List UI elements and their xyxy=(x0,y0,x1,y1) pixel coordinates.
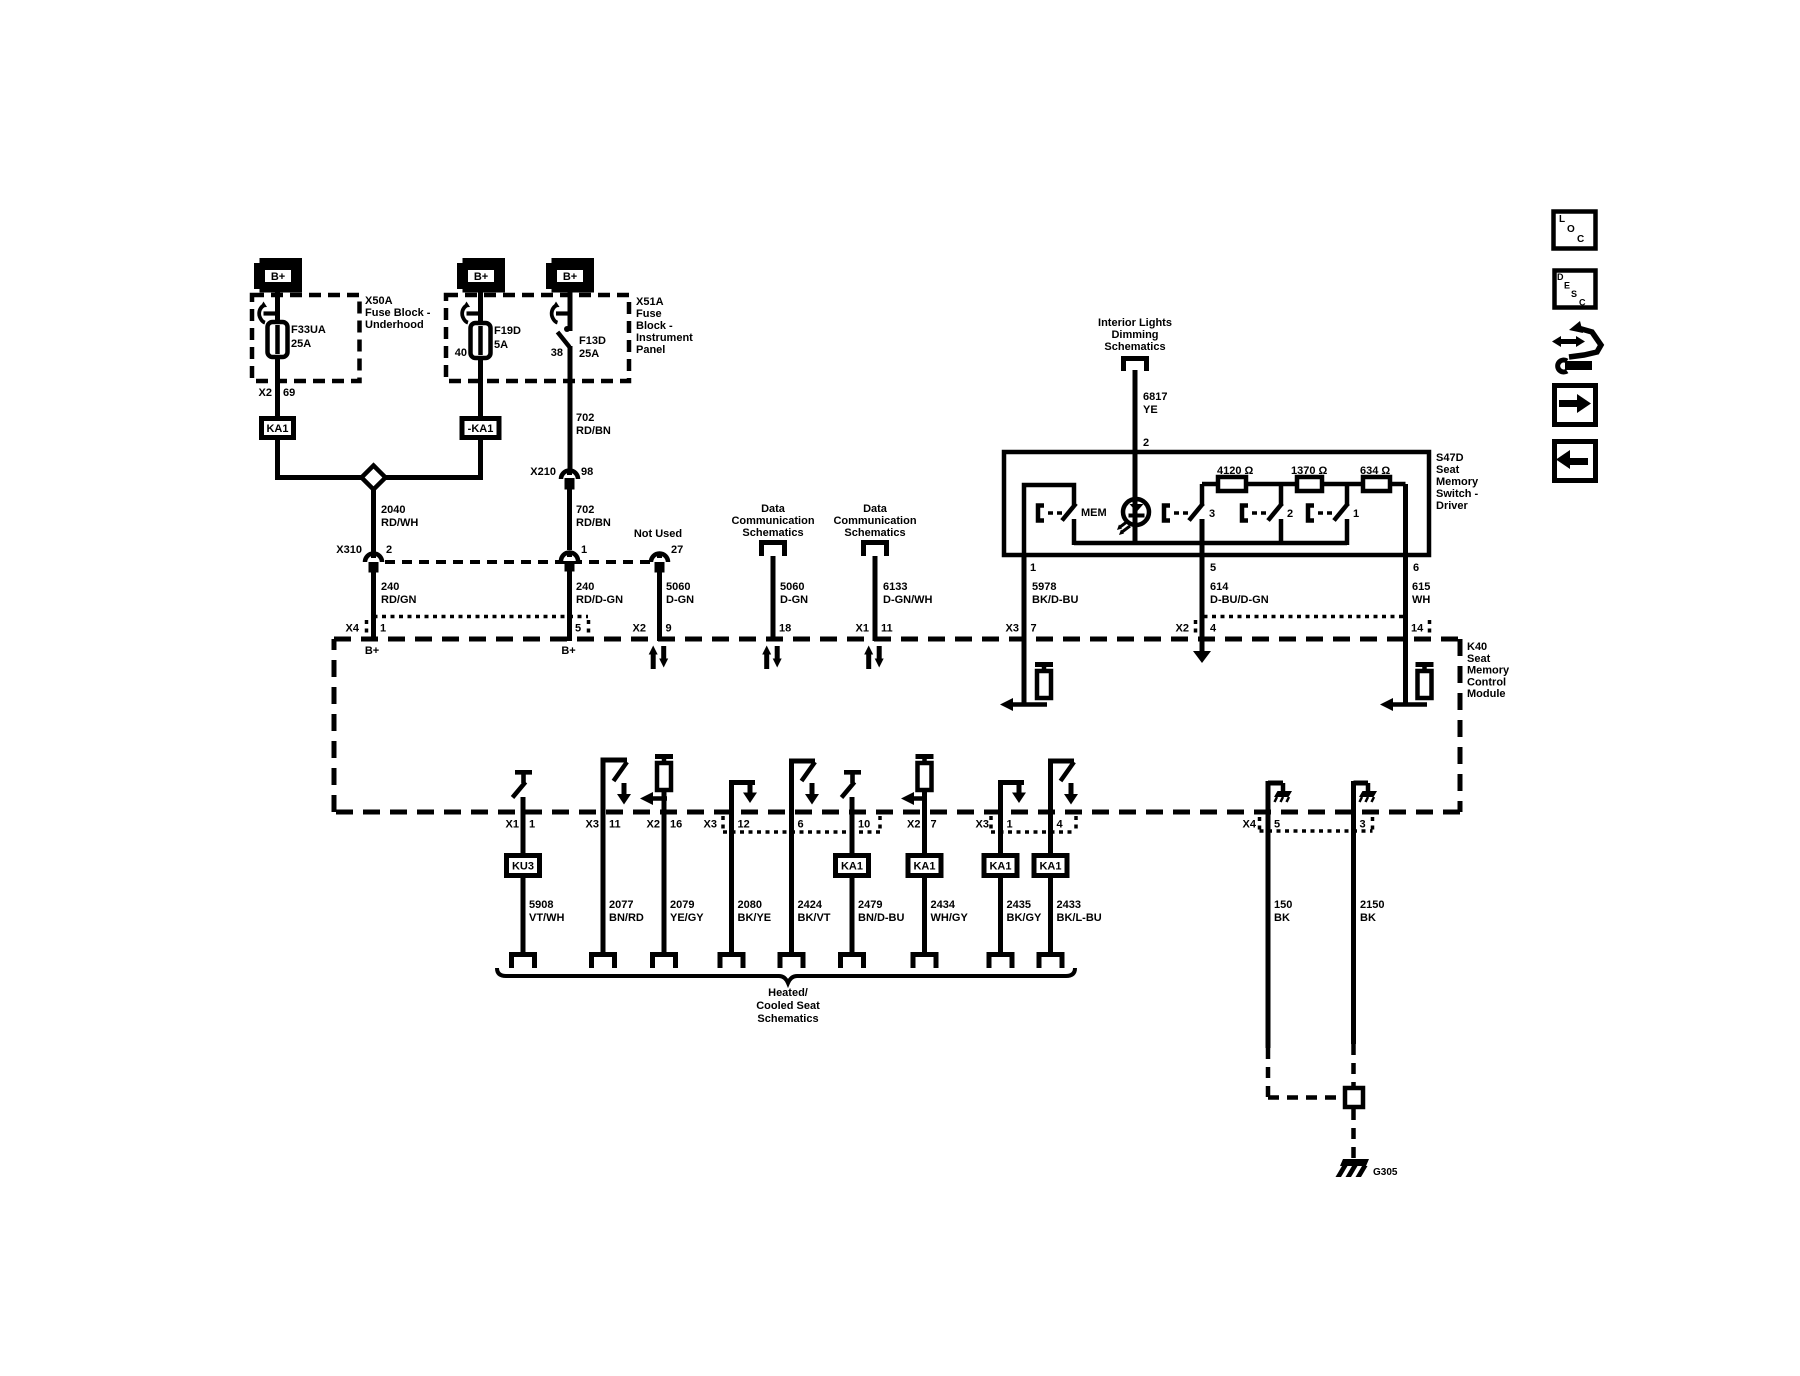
switch common bus xyxy=(1074,541,1347,546)
switch 1 lever xyxy=(1334,504,1348,521)
svg-text:B+: B+ xyxy=(474,271,488,283)
svg-text:X3: X3 xyxy=(704,819,717,831)
off-page connector 5908 xyxy=(509,952,537,957)
svg-text:Instrument: Instrument xyxy=(636,332,693,344)
switch MEM lever xyxy=(1062,504,1076,521)
wire 240 RD/GN xyxy=(371,570,376,641)
svg-text:X2: X2 xyxy=(907,819,920,831)
svg-text:2150: 2150 xyxy=(1360,899,1384,911)
svg-text:KA1: KA1 xyxy=(989,861,1011,873)
wire 2479 lower xyxy=(850,878,855,952)
wire 5060 D-GN (not used) xyxy=(657,571,662,641)
svg-text:40: 40 xyxy=(455,347,467,359)
svg-text:BK: BK xyxy=(1360,912,1376,924)
wire 5978 into module xyxy=(1022,641,1027,705)
svg-text:614: 614 xyxy=(1210,581,1229,593)
svg-text:RD/WH: RD/WH xyxy=(381,517,418,529)
connector X2 tick right xyxy=(1428,620,1432,634)
svg-text:12: 12 xyxy=(738,819,750,831)
svg-text:150: 150 xyxy=(1274,899,1292,911)
svg-text:Control: Control xyxy=(1467,676,1506,688)
solenoid symbol pin X2-7 xyxy=(916,754,934,759)
svg-text:L: L xyxy=(1559,214,1565,225)
off-page connector 2479 xyxy=(838,952,866,957)
off-page connector 2080 xyxy=(718,952,746,957)
wire B+ to F33UA xyxy=(275,291,280,323)
wire F33UA to KA1 xyxy=(275,357,280,417)
circuit breaker F13D 25A xyxy=(564,326,570,332)
wire 702 RD/BN upper xyxy=(568,346,573,469)
svg-text:Schematics: Schematics xyxy=(1104,341,1165,353)
switch 1 upper stub xyxy=(1345,484,1350,506)
svg-text:B+: B+ xyxy=(563,271,577,283)
svg-text:Interior Lights: Interior Lights xyxy=(1098,317,1172,329)
svg-text:10: 10 xyxy=(858,819,870,831)
svg-text:5060: 5060 xyxy=(780,581,804,593)
wire 2434 upper xyxy=(922,789,927,854)
svg-text:WH: WH xyxy=(1412,594,1430,606)
svg-text:11: 11 xyxy=(609,819,621,831)
svg-text:D-GN: D-GN xyxy=(780,594,808,606)
svg-text:16: 16 xyxy=(670,819,682,831)
wire 2080 BK/YE xyxy=(729,780,734,952)
wire 5908 VT/WH lower xyxy=(521,878,526,952)
module K40 dashed outline xyxy=(334,637,1460,642)
svg-text:RD/BN: RD/BN xyxy=(576,517,611,529)
off-page connector 2424 xyxy=(778,952,806,957)
svg-text:5978: 5978 xyxy=(1032,581,1056,593)
svg-text:1370 Ω: 1370 Ω xyxy=(1291,465,1328,477)
svg-text:RD/GN: RD/GN xyxy=(381,594,417,606)
off-page connector 2079 xyxy=(650,952,678,957)
resistor chain wire xyxy=(1202,482,1406,487)
svg-text:5908: 5908 xyxy=(529,899,553,911)
clip connector F19D cavity xyxy=(467,311,480,315)
svg-text:Memory: Memory xyxy=(1467,665,1510,677)
svg-text:6817: 6817 xyxy=(1143,391,1167,403)
svg-text:14: 14 xyxy=(1411,623,1424,635)
icon reroute arrows xyxy=(1569,321,1583,333)
wire 2150 BK dashed to splice xyxy=(1351,1044,1356,1086)
svg-text:3: 3 xyxy=(1360,819,1366,831)
svg-text:F13D: F13D xyxy=(579,335,606,347)
switch MEM bracket xyxy=(1038,506,1044,521)
off-page connector data comm 1 xyxy=(759,540,787,545)
icon LOC xyxy=(1554,212,1596,249)
svg-text:Seat: Seat xyxy=(1436,464,1460,476)
svg-text:KU3: KU3 xyxy=(512,861,534,873)
svg-text:Driver: Driver xyxy=(1436,500,1469,512)
svg-text:YE/GY: YE/GY xyxy=(670,912,704,924)
svg-text:2040: 2040 xyxy=(381,504,405,516)
battery terminal B+ (1) xyxy=(254,263,261,289)
svg-text:Cooled Seat: Cooled Seat xyxy=(756,1000,820,1012)
svg-text:BK/D-BU: BK/D-BU xyxy=(1032,594,1078,606)
switch 3 upper stub xyxy=(1200,484,1205,506)
resistor 1370 ohm xyxy=(1297,477,1322,491)
wire splice to ground xyxy=(1351,1109,1356,1160)
svg-text:X51A: X51A xyxy=(636,296,664,308)
ground G305 symbol xyxy=(1340,1159,1369,1166)
wire switch 2 pivot xyxy=(1279,519,1284,545)
svg-text:G305: G305 xyxy=(1373,1167,1398,1178)
svg-text:7: 7 xyxy=(1031,623,1037,635)
svg-text:11: 11 xyxy=(881,623,893,635)
wire 150 BK xyxy=(1266,815,1271,1048)
svg-text:BN/D-BU: BN/D-BU xyxy=(858,912,904,924)
svg-text:-KA1: -KA1 xyxy=(468,423,494,435)
svg-text:Memory: Memory xyxy=(1436,476,1479,488)
relay contact KA1 (2435) xyxy=(984,856,1017,876)
svg-text:25A: 25A xyxy=(579,348,599,360)
svg-text:F19D: F19D xyxy=(494,325,521,337)
wire S47D pin6 leg xyxy=(1403,484,1408,641)
connector X310 pin 2 xyxy=(365,554,382,563)
wire 614 D-BU/D-GN xyxy=(1200,519,1205,641)
svg-text:X2: X2 xyxy=(633,623,646,635)
wire 2434 lower xyxy=(922,878,927,952)
connector X2 dotted line xyxy=(1204,615,1405,619)
svg-text:B+: B+ xyxy=(365,645,379,657)
svg-text:2077: 2077 xyxy=(609,899,633,911)
svg-text:1: 1 xyxy=(1353,508,1359,520)
off-page connector 2434 xyxy=(911,952,939,957)
wire KA1 to bus xyxy=(275,440,280,480)
svg-text:27: 27 xyxy=(671,544,683,556)
svg-text:S47D: S47D xyxy=(1436,452,1464,464)
solenoid symbol 615 xyxy=(1416,662,1434,667)
wire through lamp xyxy=(1133,452,1138,545)
connector X210 pin 98 xyxy=(561,471,578,480)
svg-text:Module: Module xyxy=(1467,688,1506,700)
switch 2 lever xyxy=(1268,504,1282,521)
svg-text:WH/GY: WH/GY xyxy=(931,912,969,924)
svg-text:2080: 2080 xyxy=(738,899,762,911)
svg-text:4120 Ω: 4120 Ω xyxy=(1217,465,1254,477)
internal ground symbol pin 3 xyxy=(1351,781,1356,815)
wire 5060 D-GN (data) xyxy=(771,556,776,641)
svg-text:Panel: Panel xyxy=(636,344,665,356)
svg-text:4: 4 xyxy=(1210,623,1217,635)
svg-text:D-GN/WH: D-GN/WH xyxy=(883,594,933,606)
wire 2433 lower xyxy=(1048,878,1053,952)
wire 2077 BN/RD xyxy=(601,758,606,953)
svg-text:X3: X3 xyxy=(976,819,989,831)
wire 615 into module xyxy=(1403,641,1408,705)
wire 5908 VT/WH upper xyxy=(521,797,526,854)
wire 2435 upper xyxy=(998,780,1003,854)
svg-text:X310: X310 xyxy=(336,544,362,556)
svg-text:D: D xyxy=(1557,272,1564,282)
svg-text:7: 7 xyxy=(931,819,937,831)
output driver symbol pin X3-1 xyxy=(1001,780,1025,785)
svg-text:2433: 2433 xyxy=(1057,899,1081,911)
svg-text:702: 702 xyxy=(576,412,594,424)
clip connector F13D cavity xyxy=(556,311,569,315)
input arrow 2079 xyxy=(650,796,667,801)
connector KU3 xyxy=(507,856,540,876)
svg-text:5060: 5060 xyxy=(666,581,690,593)
svg-text:Schematics: Schematics xyxy=(844,527,905,539)
wire 6817 YE xyxy=(1133,370,1138,454)
fuse block X51A outline xyxy=(446,295,629,381)
svg-text:X4: X4 xyxy=(1243,819,1257,831)
svg-text:VT/WH: VT/WH xyxy=(529,912,564,924)
wire 702 RD/BN lower xyxy=(567,487,572,550)
connector X3 dotted group (1-4) xyxy=(989,816,993,832)
switch 3 bracket xyxy=(1164,506,1170,521)
svg-text:Schematics: Schematics xyxy=(742,527,803,539)
svg-text:C: C xyxy=(1579,298,1586,308)
icon back arrow xyxy=(1555,442,1596,481)
svg-text:YE: YE xyxy=(1143,404,1158,416)
output switch symbol pin X1-1 xyxy=(515,770,532,775)
svg-text:3: 3 xyxy=(1209,508,1215,520)
svg-text:98: 98 xyxy=(581,466,593,478)
svg-text:5: 5 xyxy=(1274,819,1280,831)
svg-text:X2: X2 xyxy=(1176,623,1189,635)
connector X4 tick right xyxy=(587,620,591,634)
wire 2433 upper xyxy=(1048,759,1053,855)
off-page connector data comm 2 xyxy=(861,540,889,545)
svg-text:S: S xyxy=(1571,289,1577,299)
svg-text:1: 1 xyxy=(581,544,587,556)
svg-text:Schematics: Schematics xyxy=(757,1013,818,1025)
svg-text:2479: 2479 xyxy=(858,899,882,911)
internal ground symbol pin X4-5 xyxy=(1266,781,1271,815)
svg-text:MEM: MEM xyxy=(1081,507,1107,519)
lamp (illumination) circle xyxy=(1123,499,1149,525)
svg-text:69: 69 xyxy=(283,387,295,399)
svg-text:2: 2 xyxy=(1143,437,1149,449)
splice xyxy=(1345,1088,1363,1107)
svg-text:5: 5 xyxy=(1210,562,1216,574)
svg-text:5: 5 xyxy=(575,623,581,635)
battery terminal B+ (2) xyxy=(457,263,464,289)
svg-text:F33UA: F33UA xyxy=(291,324,326,336)
serial data arrows pin 18 xyxy=(764,653,769,669)
output switch symbol pin 10 xyxy=(844,770,861,775)
svg-text:K40: K40 xyxy=(1467,641,1487,653)
wire 150 BK dashed to splice xyxy=(1266,1048,1271,1098)
connector X4 dotted line xyxy=(374,615,589,619)
svg-text:634 Ω: 634 Ω xyxy=(1360,465,1390,477)
bus wire KA1/-KA1 xyxy=(275,475,483,480)
svg-text:2079: 2079 xyxy=(670,899,694,911)
lamp emission arrows xyxy=(1120,521,1128,527)
connector X2 tick left xyxy=(1194,620,1198,634)
switch 3 lever xyxy=(1189,504,1203,521)
wire MEM pivot xyxy=(1072,519,1077,545)
wire 2079 YE/GY xyxy=(662,789,667,952)
wire 2040 RD/WH xyxy=(371,489,376,552)
icon DESC xyxy=(1555,271,1596,308)
resistor 634 ohm xyxy=(1363,477,1390,491)
svg-text:X3: X3 xyxy=(586,819,599,831)
svg-text:Not Used: Not Used xyxy=(634,528,682,540)
wire S47D pin1 leg xyxy=(1024,485,1074,557)
connector X310 pin 1 xyxy=(561,553,578,562)
svg-text:KA1: KA1 xyxy=(1039,861,1061,873)
svg-text:Switch -: Switch - xyxy=(1436,488,1479,500)
svg-text:6: 6 xyxy=(798,819,804,831)
fuse F33UA 25A xyxy=(268,322,288,357)
svg-text:702: 702 xyxy=(576,504,594,516)
switch assembly S47D box xyxy=(1004,452,1429,555)
wire 6133 D-GN/WH xyxy=(873,556,878,641)
svg-text:X3: X3 xyxy=(1006,623,1019,635)
svg-text:Dimming: Dimming xyxy=(1111,329,1158,341)
driver output arrow 615 xyxy=(1390,702,1427,707)
svg-text:KA1: KA1 xyxy=(913,861,935,873)
svg-text:Communication: Communication xyxy=(833,515,916,527)
svg-text:2435: 2435 xyxy=(1007,899,1031,911)
svg-text:Communication: Communication xyxy=(731,515,814,527)
output driver symbol pin X3-12 xyxy=(732,780,756,785)
clip connector F33UA cavity xyxy=(264,311,277,315)
svg-text:1: 1 xyxy=(380,623,386,635)
connector X4 dotted group (5-3) xyxy=(1258,817,1262,830)
svg-text:BK/GY: BK/GY xyxy=(1007,912,1043,924)
svg-text:BK/YE: BK/YE xyxy=(738,912,772,924)
wire B+ to F13D xyxy=(568,291,573,331)
wire -KA1 to bus xyxy=(478,440,483,480)
svg-text:RD/BN: RD/BN xyxy=(576,425,611,437)
svg-text:6: 6 xyxy=(1413,562,1419,574)
svg-text:6133: 6133 xyxy=(883,581,907,593)
output driver symbol pin X3-11 xyxy=(603,758,627,763)
lamp LED symbol xyxy=(1130,504,1144,512)
svg-text:X2: X2 xyxy=(647,819,660,831)
relay contact KA1 (top left) xyxy=(262,419,294,438)
svg-text:18: 18 xyxy=(779,623,791,635)
switch 2 bracket xyxy=(1242,506,1248,521)
solenoid symbol pin X2-16 xyxy=(655,754,673,759)
fuse F19D 5A xyxy=(471,323,491,358)
svg-text:X1: X1 xyxy=(506,819,519,831)
driver output arrow 5978 xyxy=(1010,702,1047,707)
switch 1 bracket xyxy=(1308,506,1314,521)
svg-text:Block -: Block - xyxy=(636,320,673,332)
svg-text:X2: X2 xyxy=(259,387,272,399)
svg-text:Heated/: Heated/ xyxy=(768,987,808,999)
wire 2435 lower xyxy=(998,878,1003,952)
icon forward arrow xyxy=(1555,386,1596,425)
svg-text:1: 1 xyxy=(1030,562,1036,574)
svg-text:2424: 2424 xyxy=(798,899,823,911)
svg-text:Underhood: Underhood xyxy=(365,319,424,331)
relay contact KA1 (2479) xyxy=(836,856,869,876)
brace heated/cooled seat xyxy=(497,968,1075,983)
svg-text:5A: 5A xyxy=(494,339,508,351)
svg-text:2: 2 xyxy=(386,544,392,556)
svg-text:Data: Data xyxy=(761,503,786,515)
svg-text:BK/VT: BK/VT xyxy=(798,912,831,924)
svg-text:X50A: X50A xyxy=(365,295,393,307)
svg-text:240: 240 xyxy=(381,581,399,593)
connector X4 tick left xyxy=(365,620,369,634)
svg-text:X210: X210 xyxy=(530,466,556,478)
relay contact KA1 (2433) xyxy=(1034,856,1067,876)
svg-text:615: 615 xyxy=(1412,581,1430,593)
off-page connector 2433 xyxy=(1037,952,1065,957)
svg-text:BK: BK xyxy=(1274,912,1290,924)
svg-text:2: 2 xyxy=(1287,508,1293,520)
svg-text:C: C xyxy=(1577,234,1584,245)
output driver symbol pin 4 xyxy=(1051,759,1075,764)
svg-text:KA1: KA1 xyxy=(266,423,288,435)
svg-text:D-GN: D-GN xyxy=(666,594,694,606)
serial data arrows pin 9 xyxy=(651,653,656,669)
solenoid symbol 5978 xyxy=(1035,662,1053,667)
svg-text:9: 9 xyxy=(666,623,672,635)
off-page connector 2077 xyxy=(589,952,617,957)
wire B+ to F19D xyxy=(478,291,483,324)
svg-text:E: E xyxy=(1564,281,1570,291)
svg-text:4: 4 xyxy=(1057,819,1064,831)
switch 2 upper stub xyxy=(1279,484,1284,506)
svg-text:Fuse Block -: Fuse Block - xyxy=(365,307,431,319)
svg-text:Data: Data xyxy=(863,503,888,515)
connector X310 line xyxy=(385,560,650,564)
svg-text:25A: 25A xyxy=(291,338,311,350)
svg-text:BN/RD: BN/RD xyxy=(609,912,644,924)
driver output arrow 614 xyxy=(1200,641,1205,652)
svg-text:1: 1 xyxy=(529,819,535,831)
svg-text:Seat: Seat xyxy=(1467,653,1491,665)
svg-text:X4: X4 xyxy=(346,623,360,635)
resistor 4120 ohm xyxy=(1218,477,1246,491)
serial data arrows pin 11 xyxy=(866,653,871,669)
svg-text:B+: B+ xyxy=(561,645,575,657)
wire F19D to -KA1 xyxy=(478,358,483,417)
wire 5978 BK/D-BU xyxy=(1022,555,1027,641)
relay contact KA1 (2434) xyxy=(908,856,941,876)
splice diamond xyxy=(362,466,386,490)
svg-text:O: O xyxy=(1567,224,1575,235)
svg-text:2434: 2434 xyxy=(931,899,956,911)
wire 2479 upper xyxy=(850,797,855,854)
output driver symbol pin 6 xyxy=(792,759,816,764)
svg-text:1: 1 xyxy=(1007,819,1013,831)
svg-text:BK/L-BU: BK/L-BU xyxy=(1057,912,1102,924)
off-page connector interior lights xyxy=(1121,356,1149,361)
battery terminal B+ (3) xyxy=(546,263,553,289)
connector X310 pin 27 (not used) xyxy=(651,554,668,563)
fuse block X50A outline xyxy=(252,295,360,381)
connector X3 dotted group (12-10) xyxy=(721,816,725,832)
svg-text:RD/D-GN: RD/D-GN xyxy=(576,594,623,606)
svg-text:Fuse: Fuse xyxy=(636,308,662,320)
input arrow 2434 xyxy=(911,796,927,801)
wire switch 1 pivot xyxy=(1345,519,1350,545)
wire 2424 BK/VT xyxy=(789,759,794,953)
wire 240 RD/D-GN xyxy=(567,570,572,641)
svg-text:240: 240 xyxy=(576,581,594,593)
relay contact -KA1 xyxy=(462,419,499,438)
svg-text:KA1: KA1 xyxy=(841,861,863,873)
off-page connector 2435 xyxy=(987,952,1015,957)
svg-text:X1: X1 xyxy=(856,623,869,635)
svg-text:D-BU/D-GN: D-BU/D-GN xyxy=(1210,594,1269,606)
wire 2150 BK xyxy=(1351,815,1356,1044)
svg-text:38: 38 xyxy=(551,347,563,359)
svg-text:B+: B+ xyxy=(271,271,285,283)
